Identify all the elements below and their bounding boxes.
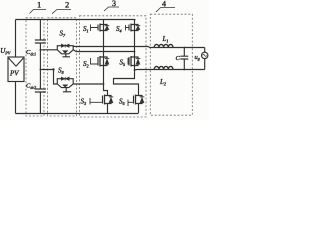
- wire: S8 to left bridge leg: [73, 83, 103, 85]
- svg-text:2: 2: [65, 0, 69, 9]
- capacitor Cdc2: [35, 89, 46, 92]
- MOSFET S6 (bottom-right): [128, 95, 144, 107]
- dashed box 1 (DC-link capacitors stage): [26, 18, 44, 116]
- wire: capacitor midpoint branch: [39, 43, 41, 89]
- wire: S7 to right bridge leg: [73, 50, 134, 52]
- callout 3: [104, 0, 119, 11]
- wire: midpoint feed down to S8: [40, 70, 57, 85]
- bidirectional switch S7: [57, 44, 73, 57]
- svg-text:S2: S2: [83, 60, 89, 68]
- svg-text:S8: S8: [58, 67, 65, 75]
- wire: right leg zigzag to S6 drain: [114, 70, 139, 96]
- MOSFET S1 (top-left): [91, 24, 110, 32]
- node midpoint-S7: [40, 49, 42, 51]
- svg-text:S6: S6: [119, 98, 126, 106]
- svg-text:UPV: UPV: [0, 47, 11, 56]
- callout 4: [156, 0, 175, 12]
- svg-text:L2: L2: [159, 78, 166, 86]
- AC grid source ug: [202, 52, 208, 58]
- dashed box 3 (bridge stage): [80, 16, 147, 117]
- node S8-left-leg: [103, 83, 105, 85]
- svg-text:1: 1: [37, 0, 41, 9]
- svg-text:S3: S3: [81, 98, 87, 106]
- dashed box 4 (LCL filter stage): [150, 14, 192, 115]
- inductor L2: [154, 66, 173, 69]
- node C-bottom: [183, 69, 185, 71]
- node S7-right-leg: [134, 51, 136, 53]
- wire: capacitor branch lower: [39, 92, 41, 114]
- svg-text:S5: S5: [120, 59, 126, 67]
- capacitor Cdc1: [35, 40, 46, 43]
- node S8-feed corner: [52, 68, 54, 70]
- svg-text:Cdc1: Cdc1: [26, 49, 36, 56]
- PV source U_PV: [8, 57, 24, 82]
- svg-text:S4: S4: [116, 25, 122, 33]
- wire: PV negative lead: [15, 82, 17, 114]
- node A: [103, 46, 105, 48]
- inductor L1: [154, 44, 173, 47]
- svg-text:3: 3: [112, 0, 116, 8]
- callout 1: [30, 0, 47, 14]
- wire: top DC rail: [16, 19, 136, 21]
- node B: [134, 69, 136, 71]
- MOSFET S4 (top-right): [126, 24, 141, 32]
- wire: left bridge leg: [103, 20, 105, 89]
- node midpoint-S8: [40, 69, 42, 71]
- dashed box 2 (midpoint switch stage): [48, 18, 77, 116]
- wire: right bridge leg lower: [138, 104, 140, 114]
- svg-text:Cdc2: Cdc2: [26, 83, 36, 90]
- svg-text:4: 4: [162, 0, 166, 8]
- wire: output A to L1: [73, 46, 204, 47]
- wire: midpoint to S7 left terminal: [40, 49, 57, 51]
- MOSFET S3 (bottom-left): [90, 89, 113, 114]
- wire: output B to L2: [135, 69, 205, 72]
- svg-text:S7: S7: [60, 30, 67, 38]
- svg-text:S1: S1: [83, 25, 89, 33]
- svg-text:ug: ug: [195, 54, 200, 61]
- svg-text:C: C: [176, 55, 181, 62]
- svg-text:PV: PV: [9, 70, 19, 78]
- capacitor C (filter): [180, 48, 188, 70]
- MOSFET S2 (mid-left): [91, 56, 110, 67]
- wire: grid leads: [204, 48, 206, 70]
- wire: PV positive lead: [15, 20, 17, 58]
- bidirectional switch S8: [57, 77, 73, 92]
- MOSFET S5 (mid-right): [128, 56, 140, 67]
- wire: capacitor branch upper: [39, 20, 41, 41]
- node C-top: [183, 47, 185, 49]
- wire: right bridge leg upper: [134, 20, 136, 71]
- svg-text:L1: L1: [162, 35, 169, 43]
- node S7-left-leg: [103, 51, 105, 53]
- wire: bottom DC rail: [16, 113, 139, 115]
- callout 2: [52, 0, 71, 14]
